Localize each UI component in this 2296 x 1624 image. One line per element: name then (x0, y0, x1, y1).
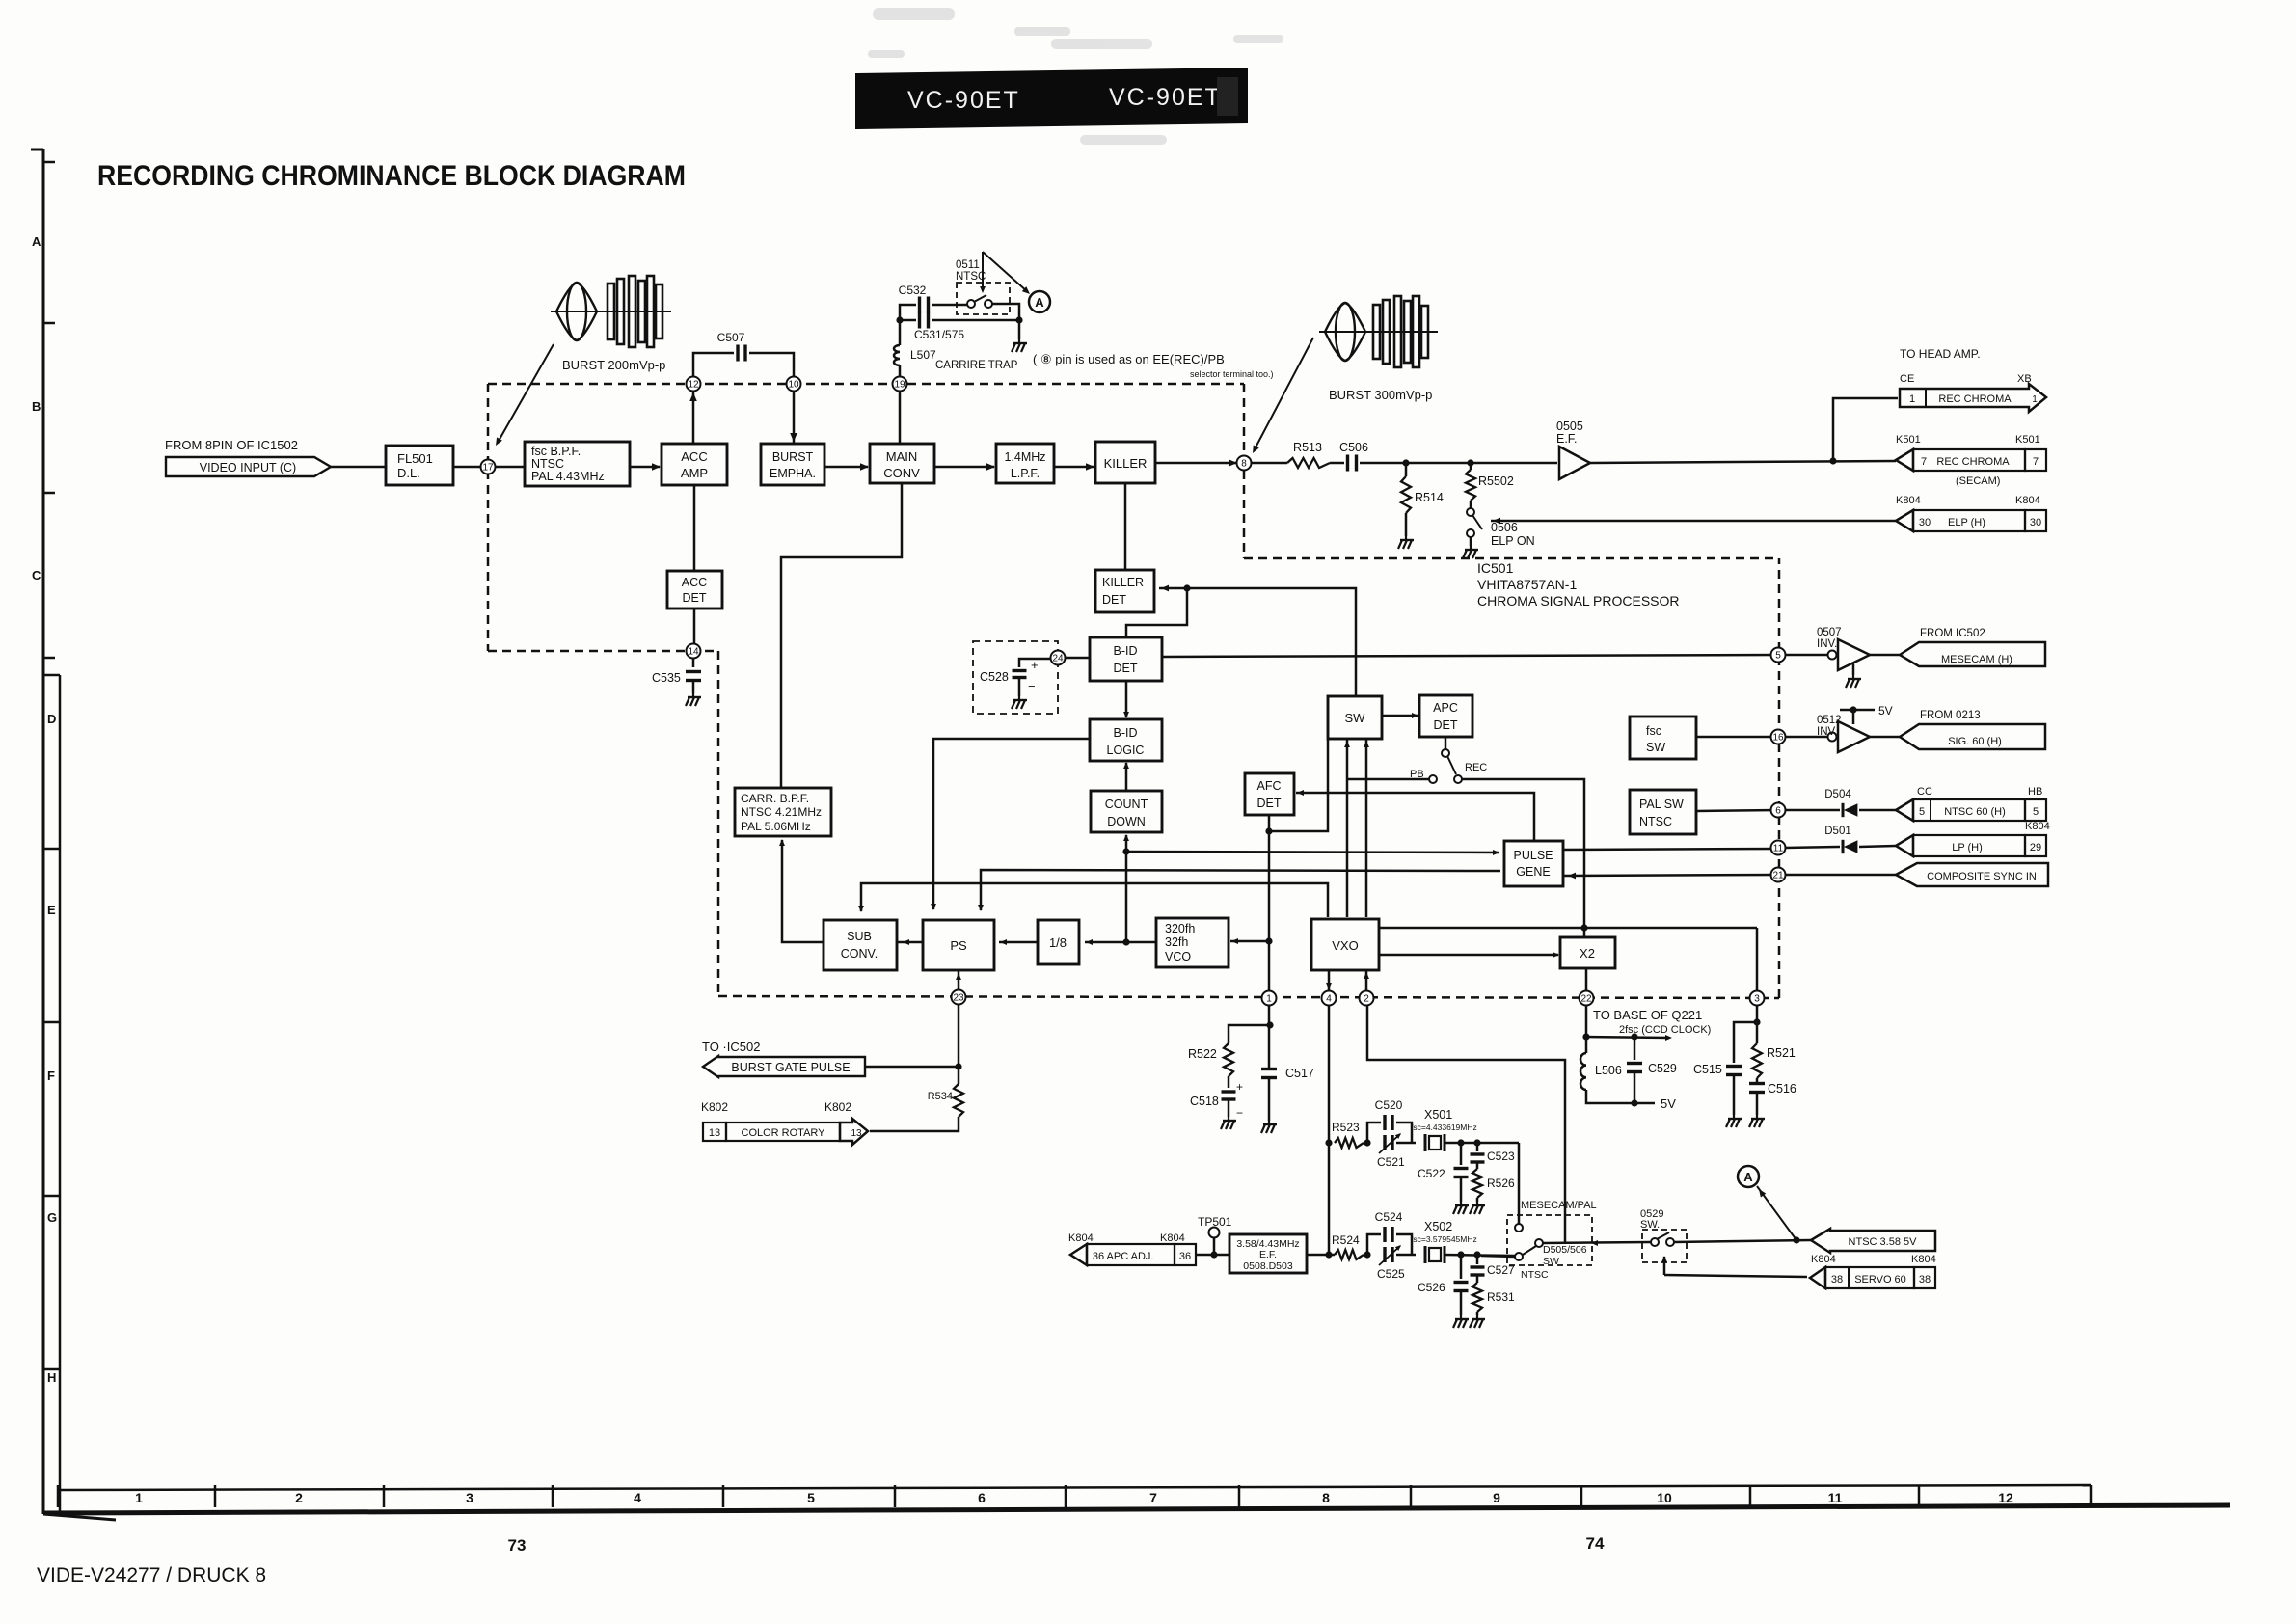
svg-text:CONV.: CONV. (841, 947, 878, 961)
wire SW verticals to VXO (1346, 739, 1349, 917)
capacitor C523 (1476, 1143, 1479, 1151)
wire pin17 to fsc BPF (488, 466, 525, 469)
svg-text:21: 21 (1772, 871, 1784, 881)
wire pin 10 down to BURST EMPHA (793, 391, 796, 444)
wire branch to R522 (1229, 1025, 1270, 1043)
svg-text:BURST GATE PULSE: BURST GATE PULSE (731, 1061, 850, 1074)
svg-text:0505: 0505 (1556, 420, 1583, 433)
wire pin19 up to carrier trap (899, 365, 902, 377)
svg-text:NTSC: NTSC (956, 271, 986, 283)
svg-text:CARR. B.P.F.: CARR. B.P.F. (741, 792, 809, 805)
wire VXO output to pin3 riser (1379, 927, 1757, 930)
wire pin24 to B-ID DET (1065, 657, 1090, 660)
svg-text:NTSC 60 (H): NTSC 60 (H) (1944, 806, 2006, 818)
pin 5 (1771, 648, 1786, 663)
pin 21 (1771, 868, 1786, 882)
svg-text:10: 10 (1657, 1490, 1672, 1505)
svg-text:R526: R526 (1487, 1177, 1515, 1190)
ground carrier trap (1012, 339, 1027, 352)
inverter 0512 INV. with 5V (1785, 736, 1827, 739)
wire pin23 down to burst gate junction (958, 1003, 960, 1067)
wire PULSE GENE to pin 11 (1563, 849, 1777, 850)
block COUNT DOWN (1091, 791, 1162, 832)
wire R513 to C506 (1330, 462, 1344, 465)
svg-text:selector terminal too.): selector terminal too.) (1190, 369, 1274, 379)
svg-text:APC ADJ.: APC ADJ. (1107, 1251, 1154, 1262)
svg-text:NTSC: NTSC (531, 457, 564, 471)
resistor R523 (1335, 1138, 1364, 1148)
svg-text:PAL 4.43MHz: PAL 4.43MHz (531, 470, 605, 483)
svg-text:36: 36 (1179, 1251, 1191, 1262)
svg-text:1.4MHz: 1.4MHz (1004, 450, 1045, 464)
svg-text:VCO: VCO (1165, 950, 1191, 963)
svg-text:R513: R513 (1293, 441, 1322, 454)
svg-text:AMP: AMP (681, 466, 708, 480)
svg-text:4: 4 (1326, 994, 1332, 1005)
svg-text:1: 1 (1909, 393, 1915, 405)
ground below R514 (1405, 513, 1408, 536)
resistor R526 (1476, 1162, 1479, 1169)
resistor R534 (958, 1067, 960, 1084)
node junction R514 (1402, 459, 1409, 466)
wire pin 19 down to MAIN CONV (899, 391, 902, 444)
block SUB CONV. (824, 920, 897, 970)
svg-text:K501: K501 (1896, 434, 1921, 446)
svg-text:9: 9 (1493, 1490, 1500, 1505)
pointer from burst to pin 17 (498, 344, 554, 443)
svg-text:AFC: AFC (1257, 779, 1282, 793)
wire C532 to switch Q511 (932, 304, 967, 307)
wire pin11 to D501 (1785, 847, 1840, 848)
block divider 1/8 (1038, 920, 1079, 964)
svg-text:11: 11 (1828, 1490, 1843, 1505)
flag APC ADJ. K804-36 (1070, 1244, 1087, 1265)
node junction burst gate (955, 1063, 961, 1069)
svg-text:−: − (1028, 679, 1036, 693)
pin 2 (1360, 991, 1374, 1006)
svg-text:R521: R521 (1767, 1046, 1796, 1060)
node junction at C531 right (1015, 316, 1022, 323)
svg-text:0508.D503: 0508.D503 (1243, 1260, 1293, 1272)
svg-text:COLOR ROTARY: COLOR ROTARY (742, 1127, 826, 1139)
svg-text:IC501: IC501 (1477, 560, 1514, 576)
pin 11 (1771, 841, 1786, 855)
capacitor C526 (1460, 1255, 1463, 1279)
wire X502 net to switch throw (1481, 1256, 1515, 1257)
svg-text:REC: REC (1465, 762, 1487, 773)
node junction R522 branch (1266, 1021, 1273, 1028)
svg-text:DOWN: DOWN (1107, 815, 1146, 828)
svg-text:( ⑧ pin is used as on EE(: ( ⑧ pin is used as on EE(REC)/PB (1033, 352, 1225, 366)
svg-text:fsc=3.579545MHz: fsc=3.579545MHz (1411, 1234, 1477, 1244)
svg-text:320fh: 320fh (1165, 922, 1195, 935)
resistor R5502 (1470, 463, 1472, 470)
wire SW to APC DET (1382, 715, 1418, 717)
ground below C518 (1228, 1099, 1230, 1117)
capacitor C529 (1634, 1037, 1636, 1060)
node junction killer det (1183, 584, 1190, 591)
svg-text:74: 74 (1586, 1534, 1605, 1553)
svg-text:5: 5 (1775, 651, 1781, 662)
svg-text:17: 17 (482, 463, 494, 474)
svg-text:3: 3 (1754, 994, 1760, 1005)
svg-text:TO HEAD AMP.: TO HEAD AMP. (1900, 347, 1981, 361)
wire PULSE GENE to AFC DET (1296, 793, 1534, 840)
resistor R522 (1224, 1043, 1233, 1076)
svg-text:22: 22 (1580, 994, 1592, 1005)
svg-text:R522: R522 (1188, 1047, 1217, 1061)
wire pin2 net down to pole wire (1367, 1005, 1565, 1242)
ground below C517 (1268, 1078, 1271, 1121)
block APC DET (1419, 695, 1472, 737)
wire ACC AMP down to ACC DET (693, 485, 696, 571)
flag COLOR ROTARY K802-13 (703, 1123, 726, 1141)
wire LPF to KILLER (1054, 466, 1094, 469)
svg-text:SUB: SUB (847, 930, 872, 943)
svg-text:C522: C522 (1418, 1167, 1445, 1180)
node junction R523 (1325, 1139, 1332, 1146)
pin 23 (952, 990, 966, 1005)
wire X501 to junctions (1445, 1142, 1519, 1145)
wire B-ID LOGIC input from PS (933, 739, 1090, 909)
svg-text:BURST 200mVp-p: BURST 200mVp-p (562, 358, 665, 372)
block KILLER DET (1095, 570, 1154, 612)
svg-text:VC-90ET: VC-90ET (907, 87, 1020, 114)
svg-text:G: G (47, 1210, 57, 1225)
svg-text:1: 1 (2032, 394, 2038, 405)
svg-text:R523: R523 (1332, 1121, 1360, 1134)
block PS (923, 920, 994, 970)
svg-text:VHITA8757AN-1: VHITA8757AN-1 (1477, 577, 1577, 592)
ground below C516 (1756, 1093, 1759, 1115)
svg-text:COMPOSITE SYNC IN: COMPOSITE SYNC IN (1927, 871, 2037, 882)
svg-text:COUNT: COUNT (1105, 798, 1148, 811)
svg-text:VIDEO INPUT (C): VIDEO INPUT (C) (200, 461, 296, 474)
5V supply to 0512 (1840, 709, 1875, 712)
wire video input to FL501 (331, 466, 386, 469)
svg-text:BURST: BURST (772, 450, 814, 464)
svg-text:A: A (1035, 295, 1044, 310)
pin 3 (1750, 991, 1765, 1006)
svg-text:0507: 0507 (1817, 627, 1842, 638)
flag LP (H) K804-29 (1896, 835, 1913, 856)
node junction pin4 vertical (1325, 1251, 1332, 1258)
resistor R531 (1476, 1275, 1479, 1283)
svg-text:MESECAM (H): MESECAM (H) (1941, 654, 2012, 665)
svg-text:SW: SW (1646, 741, 1665, 754)
svg-text:FL501: FL501 (397, 451, 433, 466)
block B-ID DET (1090, 637, 1162, 681)
wire ACC DET to pin 14 (693, 609, 696, 643)
diode D501 (1844, 840, 1857, 853)
svg-text:DET: DET (1257, 797, 1282, 810)
delay line FL501 (386, 446, 453, 485)
switch D505/506 SW dashed box (1507, 1215, 1592, 1265)
svg-text:73: 73 (508, 1536, 527, 1555)
svg-text:2: 2 (1364, 994, 1369, 1005)
flag MESECAM (H) (1900, 642, 2045, 666)
svg-text:CE: CE (1900, 373, 1914, 385)
node junction R5502 (1467, 459, 1473, 466)
svg-text:PULSE: PULSE (1514, 849, 1553, 862)
svg-text:PS: PS (950, 938, 967, 953)
svg-text:K804: K804 (1160, 1232, 1185, 1244)
svg-text:7: 7 (1921, 456, 1927, 468)
wire B-ID DET to pin 5 (1162, 655, 1777, 657)
parallel C520/C521 upper branch (1364, 1123, 1381, 1143)
svg-text:FROM 0213: FROM 0213 (1920, 710, 1981, 721)
capacitor C535 (686, 670, 701, 673)
wire VCO junction up to COUNT DOWN (1125, 835, 1128, 942)
svg-text:R534: R534 (928, 1091, 953, 1102)
svg-text:fsc B.P.F.: fsc B.P.F. (531, 445, 581, 458)
wire AFC net into VCO right (1230, 940, 1269, 943)
svg-text:10: 10 (788, 380, 799, 391)
resistor R521 (1756, 1022, 1759, 1043)
svg-text:SW: SW (1543, 1256, 1559, 1267)
svg-text:4: 4 (634, 1490, 641, 1505)
wire pin3 down (1756, 1005, 1759, 1022)
svg-text:16: 16 (1772, 733, 1784, 744)
node junction count down (1122, 848, 1129, 854)
wire D504 to NTSC flag (1859, 809, 1896, 812)
pointer line to circle A (983, 252, 1028, 292)
fsc band pass filter block (525, 442, 630, 486)
svg-text:C523: C523 (1487, 1150, 1515, 1163)
svg-text:+: + (1031, 658, 1039, 672)
svg-text:TP501: TP501 (1198, 1215, 1232, 1229)
wire REC contact down to X2 net (1462, 779, 1584, 926)
svg-text:(SECAM): (SECAM) (1956, 475, 2000, 487)
svg-text:C506: C506 (1339, 441, 1368, 454)
emitter follower 0505 E.F. (1559, 447, 1590, 479)
flag BURST GATE PULSE to IC502 (703, 1056, 865, 1077)
svg-text:1: 1 (1266, 994, 1272, 1005)
node junction C523 (1473, 1139, 1480, 1146)
svg-text:C521: C521 (1377, 1155, 1405, 1169)
node junction X2 top (1580, 924, 1587, 931)
svg-text:DET: DET (1114, 662, 1138, 675)
ground below C522 (1460, 1177, 1463, 1202)
left border ruler with row letters A-H (42, 149, 45, 1514)
crystal X501 fsc=4.433619MHz (1424, 1134, 1427, 1151)
svg-text:30: 30 (2030, 517, 2041, 528)
svg-text:LP (H): LP (H) (1952, 842, 1983, 853)
wire pin8 to R513 (1244, 462, 1287, 465)
svg-text:14: 14 (688, 647, 699, 658)
wire VCO junction to 1/8 (1085, 941, 1126, 944)
wire into SUB CONV top from VXO net (861, 883, 1328, 917)
svg-text:APC: APC (1433, 701, 1458, 715)
wire COUNT DOWN junction to PULSE GENE (1126, 852, 1499, 853)
ground below C528 (1018, 678, 1021, 696)
svg-text:2: 2 (295, 1490, 303, 1505)
node junction pin3 (1753, 1018, 1760, 1025)
wire junction to SW box (1187, 588, 1356, 696)
svg-text:BURST 300mVp-p: BURST 300mVp-p (1329, 388, 1432, 402)
block VXO (1311, 919, 1379, 970)
svg-text:0506: 0506 (1491, 521, 1518, 534)
svg-text:SW: SW (1345, 711, 1366, 725)
svg-text:DET: DET (1102, 593, 1126, 607)
svg-text:38: 38 (1919, 1274, 1931, 1286)
flag ELP (H) K804-30 (1896, 510, 1913, 531)
svg-text:X2: X2 (1580, 946, 1595, 961)
block AFC DET (1245, 773, 1294, 815)
svg-text:K501: K501 (2015, 434, 2040, 446)
svg-text:CONV: CONV (883, 466, 920, 480)
wire pin6 to D504 (1785, 809, 1840, 812)
wire D501 to LP flag (1859, 846, 1896, 847)
svg-text:5V: 5V (1878, 704, 1893, 717)
block ACC DET (667, 571, 722, 609)
svg-text:30: 30 (1919, 517, 1931, 528)
capacitor C520 (1383, 1115, 1386, 1130)
wire pin3 riser (1756, 928, 1759, 991)
ground at 0507 (1852, 663, 1855, 675)
svg-text:CC: CC (1917, 786, 1932, 798)
wire VXO second output to X2 (1379, 954, 1558, 957)
svg-text:6: 6 (978, 1490, 986, 1505)
svg-text:0512: 0512 (1817, 715, 1842, 726)
svg-text:7: 7 (2033, 456, 2039, 468)
wire PB contact to SW net (1347, 778, 1429, 781)
svg-text:6: 6 (1775, 806, 1781, 817)
model banner VC-90ET (855, 68, 1248, 129)
wire pin 2 to VXO (1365, 970, 1368, 991)
block 3.58/4.43MHz E.F. 0508.D503 (1229, 1234, 1307, 1273)
svg-text:K804: K804 (1811, 1254, 1836, 1265)
wire switch to junction (992, 304, 1019, 320)
svg-text:H: H (47, 1370, 56, 1385)
wire junction to C529 and arrow out (1586, 1037, 1669, 1038)
wire PS to SUB CONV (897, 941, 923, 944)
wire pin12 to C507 (693, 353, 734, 377)
svg-text:24: 24 (1052, 654, 1064, 664)
wire branch to C515 (1734, 1022, 1757, 1063)
wire R534 to color rotary (870, 1117, 959, 1131)
node junction L506 (1582, 1033, 1589, 1040)
svg-text:C516: C516 (1768, 1082, 1796, 1096)
wire MAIN CONV down to CARR BPF (781, 483, 902, 788)
svg-text:GENE: GENE (1516, 865, 1550, 879)
capacitor C517 (1261, 1068, 1277, 1070)
crystal X502 fsc=3.579545MHz (1424, 1246, 1427, 1263)
flag SERVO 60 K804-38 (1810, 1267, 1825, 1288)
wire EF box to R524 junction (1307, 1254, 1335, 1257)
svg-text:TO BASE OF Q221: TO BASE OF Q221 (1593, 1008, 1702, 1022)
ground below R526 (1476, 1198, 1479, 1202)
svg-text:8: 8 (1241, 459, 1247, 470)
svg-text:R514: R514 (1415, 491, 1444, 504)
wire VXO to pin 4 (1328, 970, 1331, 991)
wire inverter to MESECAM flag (1870, 654, 1900, 657)
svg-text:12: 12 (688, 380, 699, 391)
node circle A reference (1029, 291, 1050, 312)
svg-text:C524: C524 (1375, 1210, 1403, 1224)
svg-text:fsc=4.433619MHz: fsc=4.433619MHz (1411, 1123, 1477, 1132)
svg-text:CHROMA SIGNAL PROCESSOR: CHROMA SIGNAL PROCESSOR (1477, 593, 1680, 609)
node carrier trap junction (896, 316, 903, 323)
burst waveform 300mVp-p (1319, 331, 1438, 333)
svg-text:23: 23 (953, 993, 964, 1004)
wire switch pole to Q529 (1543, 1242, 1651, 1243)
wire pin1 down (1268, 1005, 1271, 1068)
switch PB/REC below APC DET (1445, 737, 1447, 749)
wire 1/8 to PS (999, 941, 1038, 944)
flag SIG. 60 (H) (1900, 724, 2045, 749)
svg-text:TO ·IC502: TO ·IC502 (702, 1040, 760, 1054)
svg-text:C515: C515 (1693, 1063, 1722, 1076)
svg-text:1: 1 (135, 1490, 143, 1505)
pointer from circle A to NTSC wire (1757, 1186, 1796, 1240)
wire KILLER to pin 8 (1155, 462, 1242, 465)
svg-text:K802: K802 (824, 1100, 851, 1114)
capacitor C507 (736, 345, 739, 362)
svg-text:B: B (32, 399, 41, 414)
svg-text:D504: D504 (1824, 789, 1851, 800)
block B-ID LOGIC (1090, 719, 1162, 761)
block X2 (1560, 937, 1615, 968)
block KILLER (1095, 442, 1155, 483)
svg-text:B-ID: B-ID (1114, 644, 1138, 658)
pin 4 (1322, 991, 1337, 1006)
wire C531 to ground node (932, 319, 1019, 322)
svg-text:ACC: ACC (682, 576, 707, 589)
node junction C527 (1473, 1251, 1480, 1258)
wire PS bottom to pin 23 (958, 970, 960, 991)
svg-text:D.L.: D.L. (397, 466, 420, 480)
switch Q511 NTSC with dashed box (957, 283, 1010, 314)
svg-text:VXO: VXO (1332, 938, 1358, 953)
svg-text:MESECAM/PAL: MESECAM/PAL (1521, 1200, 1597, 1211)
flag REC CHROMA (SECAM) K501-7 (1896, 449, 1913, 471)
wire BPF to ACC AMP (630, 466, 660, 469)
svg-text:X501: X501 (1424, 1108, 1452, 1122)
wire fsc SW to pin 16 (1696, 736, 1777, 739)
svg-text:29: 29 (2030, 842, 2041, 853)
diode D504 (1844, 803, 1857, 817)
wire MAIN CONV to 1.4MHz LPF (934, 466, 994, 469)
wire pin14 down to C535 (692, 658, 695, 667)
block SW (1328, 696, 1382, 739)
node circle A reference 2 (1738, 1166, 1759, 1187)
ground below C535 (692, 681, 695, 693)
capacitor C518 electrolytic (1228, 1076, 1230, 1088)
svg-text:DET: DET (683, 591, 707, 605)
svg-text:REC CHROMA: REC CHROMA (1938, 393, 2012, 405)
wire B-ID DET down to B-ID LOGIC (1125, 681, 1128, 717)
wire VCO to junction (1126, 941, 1156, 944)
svg-text:CARRIRE TRAP: CARRIRE TRAP (935, 360, 1018, 371)
wire X2 bottom to pin 22 (1585, 968, 1588, 991)
test point TP501 (1210, 1251, 1217, 1258)
resistor R513 (1287, 458, 1330, 468)
node junction VCO input branch (1265, 937, 1272, 944)
svg-text:EMPHA.: EMPHA. (770, 467, 816, 480)
resistor R524 (1335, 1250, 1364, 1259)
pin 8 (1237, 456, 1252, 471)
trimmer capacitor C525 (1383, 1247, 1386, 1262)
wire L506 to 5V rail (1586, 1090, 1655, 1103)
block PAL SW NTSC (1630, 790, 1696, 834)
wire SUB CONV to CARR BPF (782, 840, 824, 942)
pin 22 (1580, 991, 1594, 1006)
wire up to REC CHROMA flag (1833, 398, 1898, 461)
capacitor C528 electrolytic (1019, 659, 1051, 667)
svg-text:C507: C507 (717, 331, 745, 344)
capacitor C522 (1460, 1143, 1463, 1165)
